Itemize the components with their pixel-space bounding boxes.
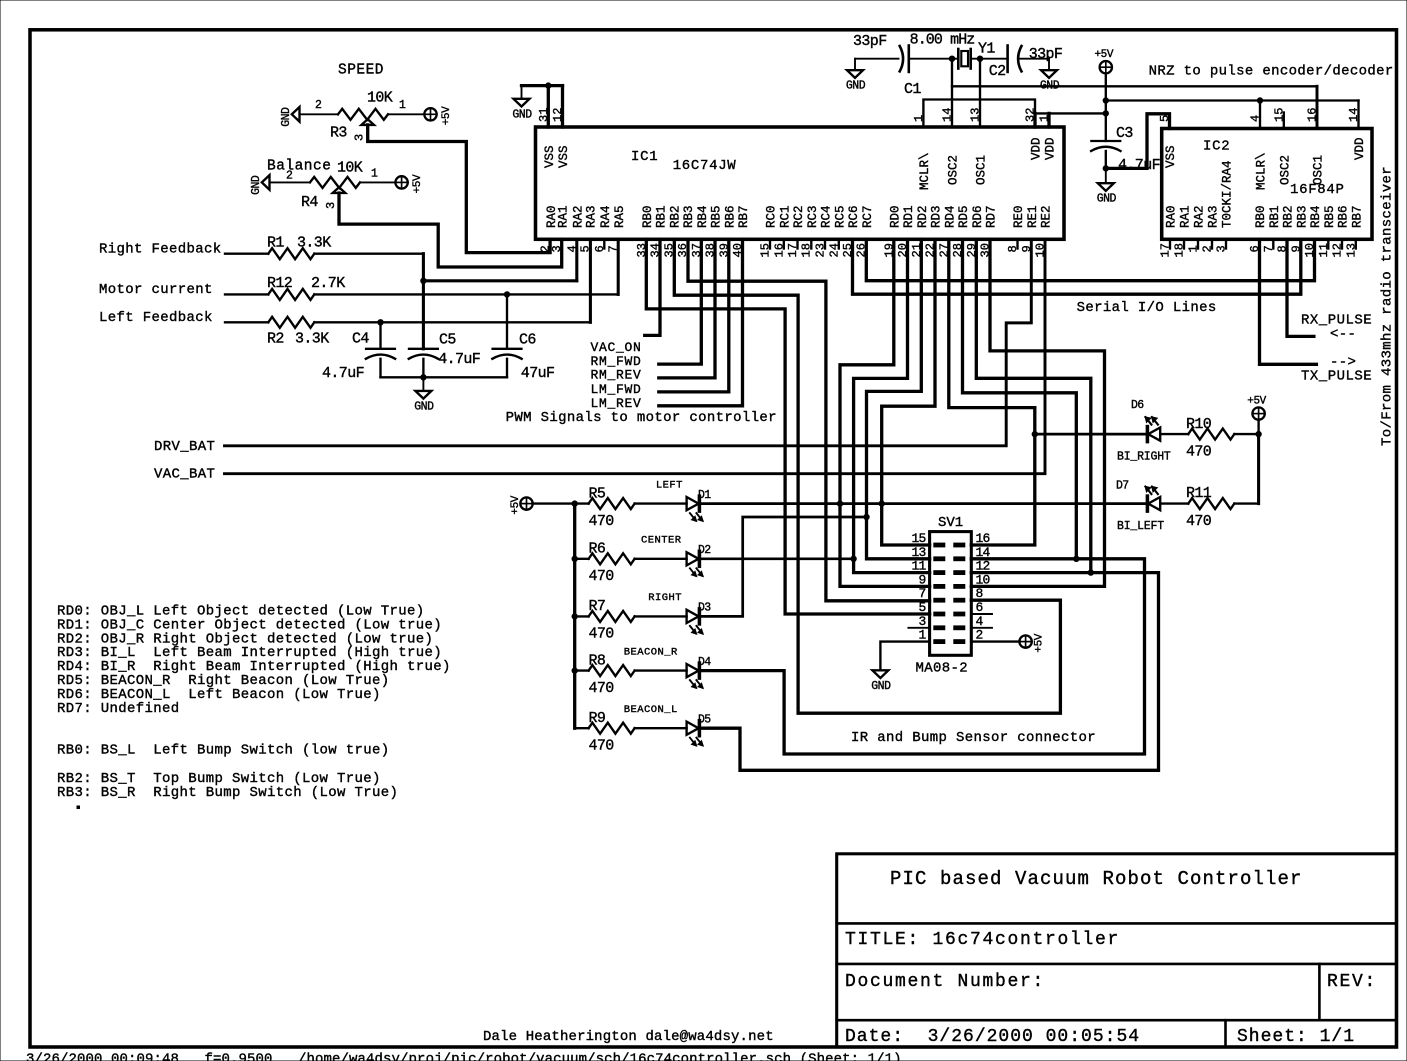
- wire R4 pin2 to GND: [270, 181, 311, 183]
- svg-text:<--: <--: [1330, 327, 1356, 343]
- ground symbol at R3 pin 2: [292, 107, 300, 122]
- net label RM_FWD at IC1 pin37: [659, 239, 702, 364]
- IC2 pin 15 stub: [1283, 113, 1285, 129]
- wire IC1 RD2 pin21 to SV1 pin 13: [867, 239, 930, 559]
- junction RD1/D2: [851, 556, 856, 561]
- wire IC1 RE2 pin10 to VAC_BAT: [225, 239, 1046, 473]
- junction RD4/D6: [1032, 431, 1037, 436]
- svg-text:D4: D4: [698, 656, 711, 669]
- power +5V at R4: [395, 176, 407, 188]
- title block outline: [837, 854, 1397, 1047]
- svg-text:Document Number:: Document Number:: [845, 972, 1045, 992]
- svg-text:RD4: RD4: [944, 205, 958, 228]
- svg-text:REV:: REV:: [1327, 972, 1377, 992]
- junction VSS: [546, 83, 551, 88]
- wire MCLR IC1 to +5V bus: [923, 100, 1105, 128]
- wire IC1 RD3 pin22 to SV1 pin 15: [882, 239, 935, 545]
- svg-text:OSC2: OSC2: [1279, 155, 1293, 185]
- svg-text:GND: GND: [280, 107, 293, 127]
- junction C3 gnd: [1103, 166, 1108, 171]
- svg-text:33pF: 33pF: [853, 33, 887, 50]
- svg-text:RD1: RD1: [902, 205, 916, 228]
- resistor R7 470: [575, 615, 589, 617]
- junction RD2/D3: [864, 514, 869, 519]
- wire +5V vertical: [1105, 73, 1107, 141]
- net label LM_FWD at IC1 pin39: [659, 239, 729, 392]
- svg-text:13: 13: [911, 545, 925, 560]
- svg-text:RE0: RE0: [1012, 205, 1026, 228]
- wire OSC1 to IC1 pin 13: [979, 59, 981, 127]
- wire IC2 RB2 pin8 to RX_PULSE: [1287, 239, 1314, 336]
- wire IC1 VDD stubs: [1033, 113, 1036, 127]
- svg-text:Y1: Y1: [978, 41, 995, 58]
- svg-text:4.7uF: 4.7uF: [322, 365, 364, 382]
- svg-text:8.00 mHz: 8.00 mHz: [910, 32, 975, 49]
- svg-text:RB2: RB2: [1282, 205, 1296, 228]
- svg-text:D1: D1: [698, 489, 711, 502]
- wire R1 to C5 and IC1 pin 4 (RA2): [314, 253, 423, 255]
- svg-text:RB2: RB2: [669, 205, 683, 228]
- wire IC1 RD7 pin30 to SV1 pin 10: [971, 239, 1104, 586]
- svg-text:RB1: RB1: [655, 205, 669, 228]
- junction R12/C6: [504, 292, 509, 297]
- svg-text:RC6: RC6: [847, 205, 861, 228]
- junction +5V IC2 MCLR: [1257, 98, 1262, 103]
- svg-text:16: 16: [976, 531, 990, 546]
- svg-text:RC3: RC3: [806, 205, 820, 228]
- svg-text:470: 470: [589, 626, 615, 643]
- svg-text:Sheet: 1/1: Sheet: 1/1: [1237, 1027, 1355, 1047]
- svg-text:MCLR\: MCLR\: [918, 152, 932, 190]
- power +5V at R10: [1252, 407, 1264, 419]
- op IC2 body 16F84P: [1162, 129, 1372, 240]
- svg-text:RB3: RB3: [1296, 205, 1310, 228]
- svg-text:1: 1: [399, 99, 406, 112]
- svg-text:2: 2: [976, 628, 983, 643]
- svg-text:C2: C2: [989, 63, 1006, 80]
- svg-text:RC4: RC4: [820, 205, 834, 228]
- svg-text:RB5: RB5: [710, 205, 724, 228]
- svg-text:GND: GND: [250, 175, 263, 195]
- svg-text:VSS: VSS: [1164, 145, 1178, 168]
- wire IC1 RD5 pin28 to SV1 pin 14 and D4: [963, 239, 1077, 559]
- svg-text:RB7: RB7: [1351, 205, 1365, 228]
- svg-text:C1: C1: [904, 81, 921, 98]
- svg-text:15: 15: [911, 531, 925, 546]
- svg-text:1: 1: [918, 628, 926, 643]
- svg-text:BEACON_L: BEACON_L: [624, 704, 678, 716]
- svg-text:470: 470: [589, 680, 615, 697]
- svg-text:Serial I/O Lines: Serial I/O Lines: [1077, 300, 1217, 316]
- power +5V at SV1 pin 2: [1019, 635, 1031, 647]
- svg-text:VAC_BAT: VAC_BAT: [154, 467, 215, 483]
- svg-text:RD7: Undefined: RD7: Undefined: [57, 701, 180, 717]
- svg-text:RM_FWD: RM_FWD: [591, 354, 642, 369]
- svg-text:MA08-2: MA08-2: [916, 661, 969, 677]
- wire R2 to C4 and IC1 pin 5 (RA3): [314, 321, 590, 323]
- svg-text:RB0: BS_L Left Bump Switch (l: RB0: BS_L Left Bump Switch (low true): [57, 743, 390, 759]
- IC2 unconnected pin stubs: [1169, 239, 1171, 248]
- svg-text:470: 470: [589, 737, 615, 754]
- svg-text:+5V: +5V: [1094, 49, 1113, 61]
- wire IC1 RD1 pin20 to SV1 pin 11: [854, 239, 930, 572]
- svg-text:C5: C5: [439, 332, 456, 349]
- svg-text:PIC based Vacuum Robot Control: PIC based Vacuum Robot Controller: [890, 868, 1303, 890]
- svg-text:T0CKI/RA4: T0CKI/RA4: [1221, 160, 1235, 228]
- svg-text:RA3: RA3: [585, 205, 599, 228]
- svg-text:GND: GND: [871, 680, 891, 693]
- svg-text:RD2: RD2: [916, 205, 930, 228]
- svg-text:3/26/2000 00:09:48 f=0.9500: 3/26/2000 00:09:48 f=0.9500 /home/wa4dsy…: [26, 1052, 902, 1061]
- svg-text:D6: D6: [1131, 399, 1144, 412]
- svg-text:To/From 433mhz radio transceiv: To/From 433mhz radio transceiver: [1380, 166, 1396, 446]
- svg-text:LEFT: LEFT: [656, 479, 683, 491]
- wire R12 to C6 and IC1 pin 7 (RA5): [314, 293, 618, 295]
- svg-text:R10: R10: [1186, 416, 1212, 433]
- svg-text:+5V: +5V: [441, 106, 453, 125]
- svg-text:RA5: RA5: [613, 205, 627, 228]
- svg-text:OSC1: OSC1: [1312, 155, 1326, 185]
- wire R4 pin1 to +5V: [360, 181, 395, 183]
- junction R2/C4: [378, 320, 383, 325]
- wire IC1 RB3 pin36 to SV1 pin 7: [688, 239, 930, 601]
- LED D1: [635, 502, 687, 504]
- svg-text:D5: D5: [698, 713, 711, 726]
- wire +5V ladder feed: [533, 502, 575, 504]
- svg-text:3: 3: [353, 134, 367, 141]
- wire D3 row jog: [699, 517, 866, 616]
- svg-text:RC2: RC2: [792, 205, 806, 228]
- resistor R11 470: [1188, 498, 1234, 509]
- svg-text:RC0: RC0: [765, 205, 779, 228]
- svg-text:BI_RIGHT: BI_RIGHT: [1117, 451, 1171, 464]
- power +5V at LED ladder: [520, 497, 532, 509]
- svg-text:VSS: VSS: [543, 145, 557, 168]
- wire IC1 RD6 pin29 to SV1 pin 12 and D5: [976, 239, 1091, 572]
- wire C2 to GND: [1020, 58, 1050, 60]
- wire IC1 RC7 pin26 to IC2 RB4 pin 10: [866, 239, 1314, 280]
- svg-text:GND: GND: [1097, 193, 1117, 206]
- connector SV1 stub pins 3 4 6: [908, 627, 929, 629]
- svg-text:RE1: RE1: [1026, 205, 1040, 228]
- svg-text:RB4: RB4: [696, 205, 710, 228]
- svg-text:RB3: BS_R Right Bump Switch (: RB3: BS_R Right Bump Switch (Low True): [57, 785, 398, 801]
- wire R10 to +5V: [1234, 433, 1258, 435]
- wire VSS bus: [522, 84, 563, 87]
- potentiometer R3 10K: [338, 109, 388, 120]
- svg-text:+5V: +5V: [510, 495, 522, 514]
- svg-text:10: 10: [976, 572, 990, 587]
- wire R3 wiper to IC1 pin 2 (RA0): [368, 125, 550, 253]
- junction R10/+5V: [1256, 431, 1261, 436]
- svg-text:R6: R6: [589, 541, 606, 558]
- wire IC1 RE1 pin9 to DRV_BAT: [225, 239, 1032, 445]
- svg-text:470: 470: [1186, 444, 1212, 461]
- svg-text:16C74JW: 16C74JW: [673, 158, 737, 174]
- junction caps gnd: [421, 375, 426, 380]
- svg-text:RE2: RE2: [1040, 205, 1054, 228]
- svg-text:470: 470: [589, 568, 615, 585]
- junction OSC2 node: [949, 56, 954, 61]
- svg-text:470: 470: [1186, 513, 1212, 530]
- svg-text:11: 11: [911, 559, 926, 574]
- svg-text:BI_LEFT: BI_LEFT: [1117, 520, 1164, 533]
- svg-text:7: 7: [918, 586, 925, 601]
- svg-text:VSS: VSS: [557, 145, 571, 168]
- junction RD5 row14: [1074, 556, 1079, 561]
- svg-text:RB5: RB5: [1323, 205, 1337, 228]
- power +5V at R3: [424, 108, 436, 120]
- svg-text:SV1: SV1: [938, 515, 963, 531]
- svg-text:BEACON_R: BEACON_R: [624, 646, 678, 658]
- svg-text:3: 3: [324, 202, 338, 209]
- svg-text:10K: 10K: [367, 90, 393, 107]
- svg-text:2.7K: 2.7K: [311, 275, 345, 292]
- svg-text:R2: R2: [267, 330, 284, 347]
- svg-text:RD5: RD5: [957, 205, 971, 228]
- svg-text:IC1: IC1: [631, 149, 658, 165]
- svg-text:RB1: RB1: [1268, 205, 1282, 228]
- svg-text:Balance: Balance: [267, 159, 331, 175]
- svg-text:1: 1: [371, 167, 378, 180]
- svg-text:Dale Heatherington dale@wa4dsy: Dale Heatherington dale@wa4dsy.net: [483, 1029, 774, 1045]
- ground symbol at SV1: [872, 670, 888, 678]
- svg-text:PWM Signals to motor controlle: PWM Signals to motor controller: [506, 410, 777, 426]
- svg-text:3: 3: [918, 614, 925, 629]
- junction ladder: [572, 501, 577, 506]
- svg-text:R8: R8: [589, 652, 606, 669]
- svg-text:RC1: RC1: [779, 205, 793, 228]
- wire R3 pin2 to GND: [300, 113, 339, 115]
- svg-text:Right Feedback: Right Feedback: [99, 242, 222, 258]
- svg-text:VAC_ON: VAC_ON: [591, 340, 642, 355]
- svg-text:RA1: RA1: [556, 205, 570, 228]
- junction +5V/VDD: [1103, 111, 1108, 116]
- svg-text:RD7: RD7: [985, 205, 999, 228]
- svg-text:Motor current: Motor current: [99, 282, 213, 298]
- svg-text:R11: R11: [1186, 485, 1212, 502]
- wire D7 row: [1160, 502, 1188, 504]
- junction OSC1 node: [977, 56, 982, 61]
- svg-text:14: 14: [976, 545, 991, 560]
- ground symbol at C2: [1041, 70, 1057, 78]
- LED D4: [635, 669, 687, 671]
- potentiometer R4 10K: [310, 177, 360, 188]
- svg-text:2: 2: [286, 169, 293, 182]
- wire R3 pin1 to +5V: [388, 113, 424, 115]
- ground symbol at C3: [1105, 168, 1107, 183]
- svg-text:R5: R5: [589, 485, 606, 502]
- resistor R10 470: [1188, 429, 1234, 440]
- wire D2 row: [699, 557, 853, 560]
- svg-text:IC2: IC2: [1203, 139, 1230, 155]
- connector SV1 pin pads: [934, 543, 945, 547]
- resistor R8 470: [575, 669, 589, 671]
- svg-text:R1: R1: [267, 235, 284, 252]
- wire SV1 pin1 to GND: [880, 642, 929, 671]
- ground symbol at C1: [854, 59, 856, 70]
- svg-text:RA2: RA2: [1193, 205, 1207, 228]
- svg-text:+5V: +5V: [1034, 633, 1046, 652]
- svg-text:RB7: RB7: [737, 205, 751, 228]
- junction RD3/D1 row: [879, 501, 884, 506]
- svg-text:TITLE: 16c74controller: TITLE: 16c74controller: [845, 930, 1120, 950]
- svg-text:470: 470: [589, 513, 615, 530]
- wire SV1 pin14 loop to D4: [699, 559, 1144, 754]
- svg-text:6: 6: [976, 600, 983, 615]
- svg-text:RA4: RA4: [599, 205, 613, 228]
- svg-text:IR and Bump Sensor connector: IR and Bump Sensor connector: [851, 730, 1096, 746]
- wire +5V to IC2 MCLR and VDD: [1106, 99, 1359, 101]
- svg-text:RC7: RC7: [861, 205, 875, 228]
- wire IC2 RB0 pin6 to TX_PULSE: [1260, 239, 1317, 364]
- svg-text:D3: D3: [698, 602, 711, 615]
- ground symbol IC1 VSS: [521, 86, 523, 99]
- svg-text:OSC2: OSC2: [947, 155, 961, 185]
- svg-text:D2: D2: [698, 544, 711, 557]
- svg-text:Left Feedback: Left Feedback: [99, 310, 213, 326]
- svg-text:33pF: 33pF: [1029, 46, 1063, 63]
- svg-text:VDD: VDD: [1353, 137, 1367, 160]
- wire +5V to R11: [1257, 434, 1260, 504]
- wire IC1 RB2 pin35 to SV1 pin 8: [674, 239, 1060, 713]
- wire C3 node to IC2 VSS pin 5: [1106, 114, 1170, 169]
- svg-text:+5V: +5V: [1247, 396, 1266, 408]
- LED D2: [635, 558, 687, 560]
- resistor R6 470: [575, 558, 589, 560]
- svg-text:8: 8: [976, 586, 983, 601]
- svg-text:47uF: 47uF: [521, 365, 555, 382]
- svg-text:RC5: RC5: [834, 205, 848, 228]
- svg-text:10K: 10K: [337, 160, 363, 177]
- svg-text:R4: R4: [301, 194, 318, 211]
- svg-text:GND: GND: [846, 80, 866, 93]
- svg-text:R9: R9: [589, 710, 606, 727]
- junction R1/C5: [421, 278, 426, 283]
- svg-text:GND: GND: [512, 108, 532, 121]
- wire OSC2 node to IC2 OSC1 pin 16: [952, 85, 1317, 87]
- svg-text:C3: C3: [1116, 125, 1133, 142]
- wire IC1 RD0 pin19 to SV1 pin 9: [840, 239, 930, 586]
- svg-text:RA3: RA3: [1207, 205, 1221, 228]
- svg-text:VDD: VDD: [1044, 137, 1058, 160]
- net label RM_REV at IC1 pin38: [659, 239, 715, 378]
- svg-text:4.7uF: 4.7uF: [1118, 157, 1160, 174]
- wire IC1 RD4 pin27 to SV1 pin 16 and D6: [949, 239, 1035, 545]
- svg-text:NRZ to pulse encoder/decoder: NRZ to pulse encoder/decoder: [1149, 64, 1394, 80]
- svg-text:RM_REV: RM_REV: [591, 368, 642, 383]
- svg-text:3.3K: 3.3K: [295, 330, 329, 347]
- connector SV1 MA08-2 body: [930, 532, 972, 656]
- svg-text:Date: 3/26/2000 00:05:54: Date: 3/26/2000 00:05:54: [845, 1027, 1140, 1047]
- resistor R5 470: [575, 502, 589, 504]
- svg-text:LM_FWD: LM_FWD: [591, 382, 642, 397]
- IC1 unconnected pin stubs: [603, 239, 605, 248]
- svg-text:RA2: RA2: [572, 205, 586, 228]
- svg-text:RA1: RA1: [1179, 205, 1193, 228]
- svg-text:RB0: RB0: [641, 205, 655, 228]
- ground symbol at R4 pin 2: [262, 175, 270, 190]
- svg-text:C6: C6: [519, 332, 536, 349]
- svg-text:TX_PULSE: TX_PULSE: [1301, 368, 1372, 384]
- svg-text:RB0: RB0: [1254, 205, 1268, 228]
- svg-text:RD3: RD3: [930, 205, 944, 228]
- svg-text:5: 5: [918, 600, 925, 615]
- net label LM_REV at IC1 pin40: [659, 239, 743, 405]
- svg-text:D7: D7: [1116, 480, 1129, 493]
- LED D3: [635, 615, 687, 617]
- wire cap commons: [381, 376, 508, 378]
- power +5V main: [1100, 61, 1112, 73]
- svg-text:4: 4: [976, 614, 984, 629]
- svg-text:4.7uF: 4.7uF: [438, 351, 480, 368]
- wire D6 row: [1035, 433, 1147, 436]
- svg-text:RB6: RB6: [724, 205, 738, 228]
- net label VAC_ON at IC1 RB1 pin34: [645, 239, 660, 335]
- svg-text:2: 2: [315, 99, 322, 112]
- svg-text:RD6: RD6: [971, 205, 985, 228]
- svg-text:GND: GND: [414, 400, 434, 413]
- svg-text:VDD: VDD: [1030, 137, 1044, 160]
- svg-text:DRV_BAT: DRV_BAT: [154, 439, 215, 455]
- wire OSC2 to IC1 pin 14: [951, 59, 953, 127]
- svg-text:RIGHT: RIGHT: [648, 592, 682, 604]
- svg-text:R7: R7: [589, 598, 606, 615]
- wire IC1 RC6 pin25 to IC2 RB3 pin 9: [853, 239, 1301, 294]
- resistor R9 470: [575, 727, 589, 729]
- svg-text:OSC1: OSC1: [975, 155, 989, 185]
- svg-text:9: 9: [918, 572, 925, 587]
- svg-text:LM_REV: LM_REV: [591, 396, 642, 411]
- wire D1 row to D7: [699, 502, 1146, 505]
- svg-text:RB4: RB4: [1309, 205, 1323, 228]
- svg-text:RD0: RD0: [889, 205, 903, 228]
- wire crystal to C2: [971, 58, 1008, 60]
- wire C1 to crystal: [909, 58, 959, 60]
- svg-text:C4: C4: [352, 330, 369, 347]
- svg-text:RB6: RB6: [1337, 205, 1351, 228]
- svg-text:RB3: RB3: [682, 205, 696, 228]
- wire SV1 pin12 loop to D5: [699, 573, 1158, 771]
- svg-text:MCLR\: MCLR\: [1255, 152, 1269, 190]
- svg-text:RA0: RA0: [1165, 205, 1179, 228]
- svg-text:+5V: +5V: [412, 174, 424, 193]
- op IC1 body 16C74JW: [536, 127, 1065, 239]
- junction RD6 row12: [1088, 570, 1093, 575]
- svg-text:R3: R3: [330, 125, 347, 142]
- svg-text:12: 12: [976, 559, 990, 574]
- junction RD0/D1: [837, 501, 842, 506]
- wire IC1 RB0 pin33 to SV1 pin 5: [646, 239, 929, 614]
- LED D5: [635, 727, 687, 729]
- ground symbol caps: [422, 377, 424, 390]
- wire R4 wiper to IC1 pin 3 (RA1): [339, 193, 562, 267]
- svg-text:SPEED: SPEED: [338, 63, 384, 79]
- svg-text:CENTER: CENTER: [641, 535, 682, 547]
- stray mark: [77, 806, 80, 809]
- wire SV1 pin2 to +5V: [971, 640, 1019, 642]
